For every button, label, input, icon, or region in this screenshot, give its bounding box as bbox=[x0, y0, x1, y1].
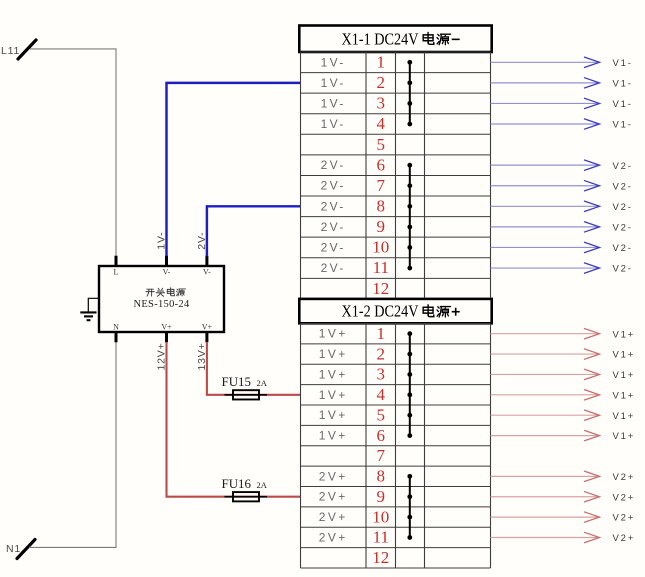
svg-text:V2+: V2+ bbox=[613, 492, 636, 503]
PSU pin L (top) bbox=[115, 256, 118, 267]
svg-text:6: 6 bbox=[377, 155, 386, 174]
svg-text:9: 9 bbox=[377, 487, 386, 506]
svg-text:7: 7 bbox=[377, 446, 386, 465]
svg-text:1V+: 1V+ bbox=[319, 388, 348, 402]
svg-text:1: 1 bbox=[377, 52, 386, 71]
svg-text:V1-: V1- bbox=[613, 99, 633, 110]
net arrow V2- (row 10) bbox=[491, 242, 633, 254]
svg-text:V1+: V1+ bbox=[613, 411, 636, 422]
svg-text:L: L bbox=[114, 268, 119, 277]
svg-text:1V-: 1V- bbox=[156, 232, 168, 250]
PSU pin V- (top) bbox=[165, 256, 168, 267]
svg-text:X1-2 DC24V: X1-2 DC24V bbox=[342, 302, 420, 321]
svg-text:V2+: V2+ bbox=[613, 533, 636, 544]
svg-text:4: 4 bbox=[377, 385, 386, 404]
ground symbol bbox=[80, 312, 96, 320]
X1-1 jumper link pins 6-11 bbox=[407, 163, 412, 271]
net arrow V1+ (row 2) bbox=[491, 349, 636, 361]
wire 13V+ (PSU V+ to FU15 to X1-2:4) bbox=[207, 342, 301, 395]
svg-text:2: 2 bbox=[377, 73, 386, 92]
wire 2V- (PSU V- to X1-1:8) bbox=[207, 206, 301, 256]
svg-text:NES-150-24: NES-150-24 bbox=[133, 299, 190, 310]
svg-text:L11: L11 bbox=[1, 45, 20, 57]
net arrow V2- (row 6) bbox=[491, 160, 633, 172]
svg-text:V2-: V2- bbox=[613, 243, 633, 254]
svg-text:V+: V+ bbox=[202, 323, 213, 332]
net arrow V2+ (row 11) bbox=[491, 532, 636, 544]
svg-text:V1+: V1+ bbox=[613, 329, 636, 340]
fuse FU16 lead bbox=[225, 496, 268, 498]
X1-2 jumper link pins 1-6 bbox=[407, 331, 412, 438]
X1-1 wire name labels bbox=[321, 55, 346, 275]
svg-text:2V-: 2V- bbox=[321, 179, 346, 193]
net arrow V1- (row 2) bbox=[491, 78, 633, 90]
svg-text:13V+: 13V+ bbox=[196, 342, 208, 370]
svg-text:V1-: V1- bbox=[613, 58, 633, 69]
X1-2 pin numbers 1-12 bbox=[372, 324, 389, 567]
PSU pin V+ (bottom) bbox=[205, 332, 208, 343]
svg-text:1V+: 1V+ bbox=[319, 408, 348, 422]
svg-text:12V+: 12V+ bbox=[156, 342, 168, 370]
svg-text:7: 7 bbox=[377, 176, 386, 195]
svg-text:2V+: 2V+ bbox=[319, 490, 348, 504]
svg-text:11: 11 bbox=[373, 258, 389, 277]
svg-text:V2-: V2- bbox=[613, 181, 633, 192]
PSU pin V+ (bottom) bbox=[165, 332, 168, 343]
PSU pin N (bottom) bbox=[115, 332, 118, 343]
svg-text:X1-1 DC24V: X1-1 DC24V bbox=[342, 29, 420, 48]
svg-text:V2-: V2- bbox=[613, 161, 633, 172]
terminal block X1-1 grid bbox=[301, 52, 491, 299]
svg-text:1V+: 1V+ bbox=[319, 367, 348, 381]
net arrow V2- (row 7) bbox=[491, 180, 633, 192]
net arrow V2- (row 9) bbox=[491, 222, 633, 234]
svg-text:2A: 2A bbox=[257, 378, 268, 388]
net arrow V1+ (row 4) bbox=[491, 390, 636, 402]
wire 1V- (PSU V- to X1-1:2) bbox=[167, 83, 301, 256]
wire 12V+ (PSU V+ to FU16 to X1-2:9) bbox=[167, 342, 301, 497]
svg-text:10: 10 bbox=[372, 507, 389, 526]
svg-text:FU16: FU16 bbox=[222, 477, 252, 491]
svg-text:12: 12 bbox=[372, 279, 389, 298]
svg-text:V2+: V2+ bbox=[613, 472, 636, 483]
svg-text:2V-: 2V- bbox=[321, 199, 346, 213]
power supply U1 box bbox=[99, 266, 224, 332]
svg-text:V1+: V1+ bbox=[613, 370, 636, 381]
svg-text:FU15: FU15 bbox=[222, 375, 252, 389]
net arrow V1+ (row 6) bbox=[491, 430, 636, 442]
power supply name 开关电源 bbox=[146, 288, 186, 296]
svg-text:N1: N1 bbox=[6, 543, 21, 555]
svg-text:9: 9 bbox=[377, 217, 386, 236]
svg-text:2A: 2A bbox=[257, 480, 268, 490]
svg-text:5: 5 bbox=[377, 405, 386, 424]
terminal block X1-2 grid bbox=[301, 324, 491, 569]
net arrow V1- (row 3) bbox=[491, 98, 633, 110]
svg-text:3: 3 bbox=[377, 94, 386, 113]
svg-text:V1+: V1+ bbox=[613, 390, 636, 401]
svg-text:1V+: 1V+ bbox=[319, 347, 348, 361]
svg-text:V1+: V1+ bbox=[613, 431, 636, 442]
fuse FU16 body bbox=[233, 492, 259, 501]
net arrow V2+ (row 10) bbox=[491, 512, 636, 524]
svg-text:V2-: V2- bbox=[613, 222, 633, 233]
svg-text:V1-: V1- bbox=[613, 78, 633, 89]
X1-2 jumper link pins 8-11 bbox=[407, 474, 412, 540]
net arrow V1- (row 4) bbox=[491, 119, 633, 131]
svg-text:8: 8 bbox=[377, 197, 386, 216]
svg-text:V2-: V2- bbox=[613, 202, 633, 213]
breaker N1 blade bbox=[17, 540, 35, 559]
net arrow V1+ (row 3) bbox=[491, 369, 636, 381]
svg-text:1V-: 1V- bbox=[321, 76, 346, 90]
wire N1 to PSU N bbox=[29, 342, 116, 547]
PSU pin V- (top) bbox=[205, 256, 208, 267]
svg-text:1V-: 1V- bbox=[321, 96, 346, 110]
svg-text:4: 4 bbox=[377, 114, 386, 133]
svg-text:1: 1 bbox=[377, 324, 386, 343]
X1-2 wire name labels bbox=[319, 327, 348, 545]
svg-text:2V-: 2V- bbox=[196, 232, 208, 250]
svg-text:2V+: 2V+ bbox=[319, 530, 348, 544]
net arrow V2+ (row 8) bbox=[491, 471, 636, 483]
X1-1 jumper link pins 1-4 bbox=[407, 60, 412, 127]
net arrow V2- (row 11) bbox=[491, 263, 633, 275]
terminal block X1-2 header bbox=[299, 299, 491, 323]
svg-text:11: 11 bbox=[373, 528, 389, 547]
svg-text:2V+: 2V+ bbox=[319, 510, 348, 524]
svg-text:12: 12 bbox=[372, 548, 389, 567]
svg-text:V-: V- bbox=[163, 268, 171, 277]
svg-text:5: 5 bbox=[377, 135, 386, 154]
svg-text:2V-: 2V- bbox=[321, 158, 346, 172]
svg-text:3: 3 bbox=[377, 365, 386, 384]
svg-text:1V+: 1V+ bbox=[319, 429, 348, 443]
net arrow V2+ (row 9) bbox=[491, 491, 636, 503]
svg-text:V2+: V2+ bbox=[613, 513, 636, 524]
svg-text:1V+: 1V+ bbox=[319, 327, 348, 341]
svg-text:V1-: V1- bbox=[613, 120, 633, 131]
svg-text:2V-: 2V- bbox=[321, 220, 346, 234]
net arrow V1+ (row 5) bbox=[491, 410, 636, 422]
svg-text:2V-: 2V- bbox=[321, 240, 346, 254]
fuse FU15 body bbox=[233, 390, 259, 399]
svg-text:V1+: V1+ bbox=[613, 350, 636, 361]
wire L11 to PSU L bbox=[30, 49, 116, 256]
svg-text:V2-: V2- bbox=[613, 264, 633, 275]
ground wire bbox=[88, 298, 99, 312]
svg-text:V+: V+ bbox=[161, 323, 172, 332]
net arrow V2- (row 8) bbox=[491, 201, 633, 213]
X1-1 pin numbers 1-12 bbox=[372, 52, 389, 297]
fuse FU15 lead bbox=[225, 394, 268, 396]
svg-text:V-: V- bbox=[203, 268, 211, 277]
svg-text:2: 2 bbox=[377, 344, 386, 363]
svg-text:1V-: 1V- bbox=[321, 117, 346, 131]
svg-text:6: 6 bbox=[377, 426, 386, 445]
svg-text:2V-: 2V- bbox=[321, 261, 346, 275]
net arrow V1+ (row 1) bbox=[491, 328, 636, 340]
svg-text:N: N bbox=[113, 323, 119, 332]
svg-text:10: 10 bbox=[372, 238, 389, 257]
breaker L11 blade bbox=[18, 40, 36, 59]
svg-text:8: 8 bbox=[377, 467, 386, 486]
net arrow V1- (row 1) bbox=[491, 57, 633, 69]
svg-text:1V-: 1V- bbox=[321, 55, 346, 69]
svg-text:2V+: 2V+ bbox=[319, 469, 348, 483]
terminal block X1-1 header bbox=[299, 26, 491, 53]
